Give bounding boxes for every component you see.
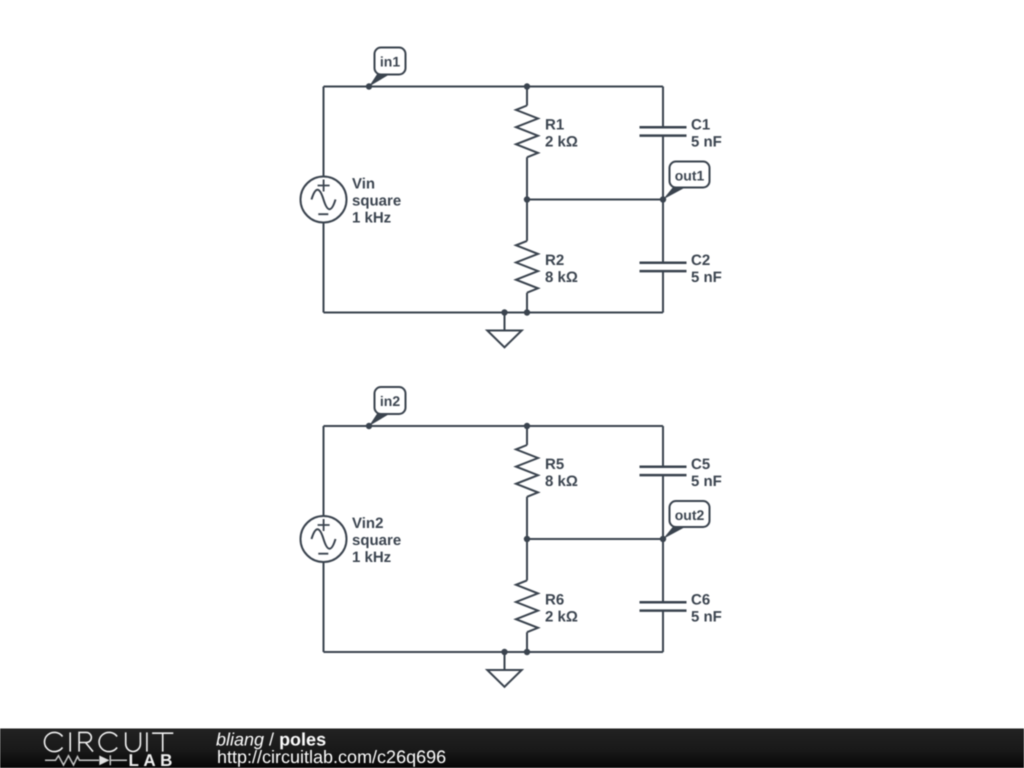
svg-text:http://circuitlab.com/c26q696: http://circuitlab.com/c26q696 <box>217 747 446 767</box>
svg-text:square: square <box>352 532 401 549</box>
svg-text:C1: C1 <box>691 116 710 133</box>
svg-text:8 kΩ: 8 kΩ <box>545 473 578 490</box>
svg-text:1 kHz: 1 kHz <box>352 210 391 227</box>
svg-text:2 kΩ: 2 kΩ <box>545 133 578 150</box>
svg-text:C2: C2 <box>691 252 710 269</box>
svg-text:5 nF: 5 nF <box>691 473 722 490</box>
svg-text:out1: out1 <box>675 168 705 184</box>
svg-text:R1: R1 <box>545 116 564 133</box>
svg-text:5 nF: 5 nF <box>691 269 722 286</box>
svg-text:2 kΩ: 2 kΩ <box>545 608 578 625</box>
svg-text:1 kHz: 1 kHz <box>352 549 391 566</box>
svg-text:LAB: LAB <box>129 751 177 768</box>
svg-text:C6: C6 <box>691 591 710 608</box>
svg-text:in2: in2 <box>380 393 400 409</box>
svg-text:R2: R2 <box>545 252 564 269</box>
svg-text:R6: R6 <box>545 591 564 608</box>
svg-text:5 nF: 5 nF <box>691 133 722 150</box>
svg-text:in1: in1 <box>380 54 400 70</box>
svg-text:Vin2: Vin2 <box>352 515 383 532</box>
svg-text:R5: R5 <box>545 456 564 473</box>
svg-text:Vin: Vin <box>352 175 375 192</box>
svg-text:8 kΩ: 8 kΩ <box>545 269 578 286</box>
svg-text:square: square <box>352 192 401 209</box>
svg-text:out2: out2 <box>675 507 705 523</box>
svg-text:5 nF: 5 nF <box>691 608 722 625</box>
svg-text:C5: C5 <box>691 456 710 473</box>
